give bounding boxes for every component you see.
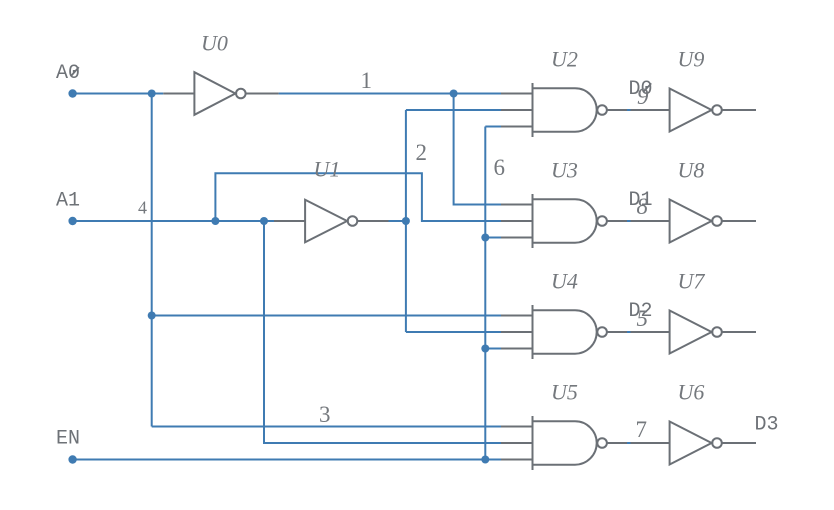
svg-text:7: 7 [636, 417, 648, 442]
svg-text:5: 5 [637, 306, 649, 331]
inverter U6 bubble [712, 438, 722, 448]
inverter U9 triangle [670, 89, 712, 132]
svg-text:U6: U6 [678, 380, 705, 405]
svg-text:2: 2 [416, 140, 428, 165]
nand U3 output stub [608, 220, 628, 222]
nand U5 input bar [532, 416, 534, 470]
inverter U7 bubble [712, 327, 722, 337]
nand U2 output stub [608, 109, 628, 111]
svg-text:U5: U5 [551, 380, 578, 405]
node junction A0/V1 [148, 90, 156, 98]
svg-text:U0: U0 [201, 31, 228, 56]
inverter U6 output wire [722, 442, 756, 444]
nand U5 body [533, 421, 597, 464]
node junction EN to U3 [481, 234, 489, 242]
wire net A1 down-route to U5 input B [264, 221, 501, 443]
wire net 1 vertical to U3 input A [454, 94, 501, 205]
wire net A1 over-route to U3 input B [215, 173, 501, 221]
svg-text:EN: EN [56, 428, 80, 451]
inverter U0 bubble [236, 89, 246, 99]
wire net 2 branch to U4 input B [406, 331, 501, 333]
nand U4 output stub [608, 331, 628, 333]
nand U5 output stub [608, 442, 628, 444]
nand U5 bubble [597, 438, 607, 448]
wire net A0 branch to U4 input A [152, 315, 501, 317]
wire net 1 from U0 output to U2 input A [279, 93, 501, 95]
wire net A0 horizontal from pin to U0 [73, 93, 164, 95]
wire net A0 vertical bus x=152 [151, 94, 153, 427]
nand U2 bubble [597, 105, 607, 115]
node junction net 2 at U1 output [402, 217, 410, 225]
inverter U7 triangle [670, 311, 712, 354]
svg-text:1: 1 [361, 68, 373, 93]
nand U3 input stubs [501, 204, 533, 206]
node junction A1 down-route [260, 217, 268, 225]
nand U2 input bar [532, 83, 534, 137]
inverter U1 output stub [358, 220, 389, 222]
nand U3 input bar [532, 194, 534, 248]
wire net A1 horizontal from pin to U1 [73, 220, 274, 222]
nand U2 input stubs [501, 93, 533, 95]
nand U3 body [533, 199, 597, 242]
svg-text:U8: U8 [678, 158, 705, 183]
node junction net 1 split [450, 90, 458, 98]
wire net segment on output row 0 [627, 109, 631, 111]
svg-text:4: 4 [138, 198, 147, 218]
nand U2 body [533, 88, 597, 131]
inverter U7 output wire [722, 331, 756, 333]
inverter U0 output stub [246, 93, 279, 95]
nand U3 bubble [597, 216, 607, 226]
svg-text:D3: D3 [755, 414, 779, 437]
node junction EN to U4 [481, 345, 489, 353]
svg-text:U7: U7 [678, 269, 706, 294]
wire net segment on output row 3 [627, 442, 631, 444]
node junction A0 to U4 branch [148, 312, 156, 320]
wire net 3 branch to U5 input A [152, 426, 501, 428]
svg-text:9: 9 [637, 84, 649, 109]
svg-text:A0: A0 [56, 62, 80, 85]
inverter U9 input stub [631, 109, 670, 111]
slash of zero in A0 [72, 67, 79, 75]
wire net EN branch to U2 input C [485, 126, 501, 128]
pin A1 terminal dot [68, 217, 76, 225]
nand U4 bubble [597, 327, 607, 337]
svg-text:U2: U2 [551, 47, 578, 72]
inverter U6 triangle [670, 422, 712, 465]
svg-text:U3: U3 [551, 158, 578, 183]
svg-text:A1: A1 [56, 190, 80, 213]
inverter U9 output wire [722, 109, 756, 111]
wire net EN branch to U4 input C [485, 348, 501, 350]
inverter U7 input stub [631, 331, 670, 333]
nand U4 body [533, 310, 597, 353]
svg-text:8: 8 [637, 194, 649, 219]
slash of zero in D0 [644, 83, 651, 91]
wire net EN branch to U3 input C [485, 237, 501, 239]
node junction EN on EN wire [481, 456, 489, 464]
inverter U6 input stub [631, 442, 670, 444]
wire net EN vertical bus x=485 [484, 127, 486, 460]
wire net EN horizontal from pin to U5 input C [73, 459, 501, 461]
node junction A1 over-route [211, 217, 219, 225]
wire net 2 branch to U2 input B [406, 109, 501, 111]
wire net 2 from U1 output [389, 220, 406, 222]
inverter U0 input stub [163, 93, 194, 95]
nand U5 input stubs [501, 426, 533, 428]
wire net segment on output row 2 [627, 331, 631, 333]
inverter U9 bubble [712, 105, 722, 115]
pin A0 terminal dot [68, 89, 76, 97]
inverter U8 triangle [670, 200, 712, 243]
nand U4 input stubs [501, 315, 533, 317]
svg-text:6: 6 [494, 155, 506, 180]
wire net segment on output row 1 [627, 220, 631, 222]
inverter U8 output wire [722, 220, 756, 222]
inverter U1 triangle [305, 200, 347, 243]
wire net 2 vertical x=406 [405, 110, 407, 332]
inverter U1 input stub [274, 220, 305, 222]
pin EN terminal dot [68, 455, 76, 463]
inverter U8 input stub [631, 220, 670, 222]
svg-text:U9: U9 [678, 47, 705, 72]
inverter U8 bubble [712, 216, 722, 226]
svg-text:U4: U4 [551, 269, 578, 294]
svg-text:U1: U1 [314, 157, 341, 182]
nand U4 input bar [532, 305, 534, 359]
inverter U0 triangle [194, 72, 235, 115]
inverter U1 bubble [348, 216, 358, 226]
svg-text:3: 3 [319, 402, 331, 427]
